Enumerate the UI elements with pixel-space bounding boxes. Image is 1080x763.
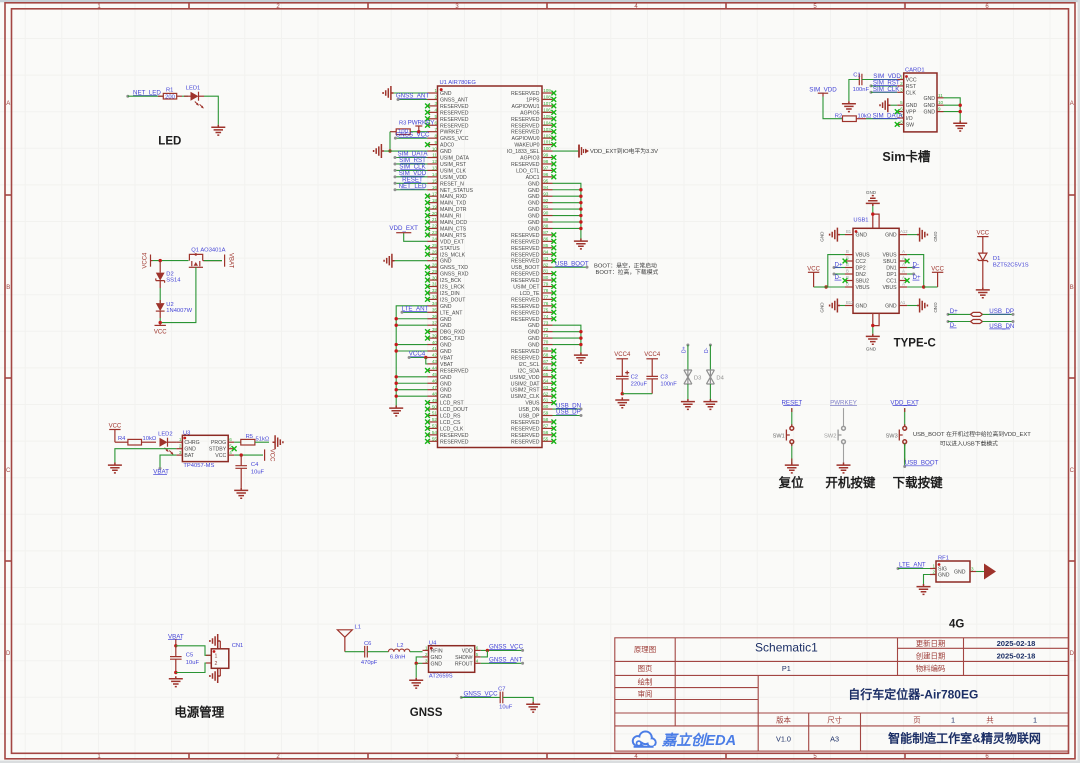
svg-text:30: 30	[432, 275, 438, 280]
ground at R5	[273, 435, 283, 449]
ground at USB1 bottom-right GND pin	[907, 299, 938, 314]
svg-text:3: 3	[425, 658, 428, 663]
net tie D+ to USB_DP	[947, 308, 1015, 316]
svg-text:GND: GND	[440, 304, 452, 310]
net label USB_DN at U1 pin60	[553, 402, 583, 410]
svg-text:GND: GND	[440, 349, 452, 355]
svg-text:RESERVED: RESERVED	[511, 239, 540, 245]
svg-text:20: 20	[432, 211, 438, 216]
svg-text:STDBY: STDBY	[209, 447, 227, 453]
svg-text:NET_STATUS: NET_STATUS	[440, 188, 473, 194]
svg-text:6: 6	[229, 437, 232, 442]
svg-text:48: 48	[432, 391, 438, 396]
svg-text:RESERVED: RESERVED	[511, 317, 540, 323]
svg-text:下载按键: 下载按键	[893, 475, 944, 490]
svg-text:71: 71	[543, 333, 549, 338]
svg-text:104: 104	[543, 120, 551, 125]
svg-text:ADC1: ADC1	[526, 175, 540, 181]
svg-text:2: 2	[215, 661, 218, 667]
svg-text:页: 页	[913, 715, 920, 724]
net label VBAT at CN1	[168, 633, 184, 646]
svg-text:B1: B1	[846, 229, 852, 234]
svg-text:GND: GND	[440, 149, 452, 155]
svg-text:ADC0: ADC0	[440, 143, 454, 149]
svg-text:85: 85	[543, 243, 549, 248]
svg-text:B12: B12	[846, 300, 854, 305]
svg-text:WAKEUP0: WAKEUP0	[514, 143, 539, 149]
svg-text:GND: GND	[528, 201, 540, 207]
svg-text:MAIN_CTS: MAIN_CTS	[440, 226, 467, 232]
svg-text:3: 3	[179, 450, 182, 455]
svg-text:2: 2	[425, 652, 428, 657]
wire C3 to C2 ground	[622, 393, 652, 395]
svg-text:LCD_CS: LCD_CS	[440, 420, 461, 426]
svg-text:VCC: VCC	[906, 78, 917, 84]
svg-text:I2S_LRCK: I2S_LRCK	[440, 285, 465, 291]
svg-text:6: 6	[434, 120, 437, 125]
svg-text:C2: C2	[631, 374, 638, 380]
svg-text:49: 49	[432, 398, 438, 403]
svg-text:55: 55	[543, 436, 549, 441]
svg-text:2025-02-18: 2025-02-18	[997, 652, 1036, 661]
svg-text:RESERVED: RESERVED	[511, 304, 540, 310]
net label NET_LED at U1 pin16	[394, 183, 428, 191]
svg-text:R1: R1	[166, 88, 173, 94]
wire RF1 GND to ground	[924, 575, 931, 585]
svg-text:63: 63	[543, 385, 549, 390]
svg-text:96: 96	[543, 172, 549, 177]
svg-text:PWRKEY: PWRKEY	[440, 130, 463, 136]
svg-text:22: 22	[432, 224, 438, 229]
wire C5 to CN1 pin1	[176, 646, 212, 656]
svg-text:68: 68	[543, 353, 549, 358]
svg-text:GND: GND	[528, 226, 540, 232]
junction at VCC node	[159, 321, 162, 324]
right GND manifold A wires of U1	[553, 183, 583, 238]
svg-text:1: 1	[951, 715, 955, 724]
svg-text:VDD_EXT: VDD_EXT	[440, 239, 465, 245]
svg-text:8: 8	[900, 119, 903, 124]
svg-text:B: B	[846, 269, 849, 274]
diode D2 SS14	[156, 261, 181, 288]
svg-text:VDD_EXT: VDD_EXT	[389, 225, 418, 232]
U1 right pins with names and numbers	[507, 88, 556, 445]
wire VCC4 to Q1	[153, 260, 189, 262]
wire R1 to LED1	[182, 95, 188, 97]
svg-text:54: 54	[432, 430, 438, 435]
svg-text:3: 3	[900, 87, 903, 92]
inductor L2 6.8nH	[389, 643, 410, 661]
svg-text:I2S_DOUT: I2S_DOUT	[440, 297, 466, 303]
svg-text:CN1: CN1	[232, 643, 244, 649]
svg-text:GND: GND	[440, 323, 452, 329]
net label GNSS_VCC at U1 pin8	[394, 131, 430, 139]
wire C7 to ground	[503, 697, 533, 701]
capacitor C3 100nF	[646, 374, 677, 393]
ground at RF1	[917, 584, 931, 594]
diode D3 TVS on D+	[686, 344, 689, 347]
svg-text:USIM2_DAT: USIM2_DAT	[511, 381, 541, 387]
svg-text:99: 99	[543, 153, 549, 158]
svg-text:1: 1	[434, 88, 437, 93]
svg-text:VCC: VCC	[154, 330, 167, 336]
svg-text:66: 66	[543, 365, 549, 370]
wire NET_LED to R1	[128, 95, 163, 97]
power flag VCC at R4	[109, 424, 122, 443]
power flag SIM_VDD left	[809, 86, 837, 96]
svg-text:CHRG: CHRG	[184, 440, 199, 446]
svg-text:C4: C4	[251, 462, 259, 468]
svg-text:LCD_DOUT: LCD_DOUT	[440, 407, 469, 413]
svg-text:RESERVED: RESERVED	[511, 162, 540, 168]
svg-text:61: 61	[543, 398, 549, 403]
svg-text:D: D	[1070, 651, 1075, 657]
svg-text:GND: GND	[528, 323, 540, 329]
svg-text:GND: GND	[856, 233, 868, 239]
svg-text:6.8nH: 6.8nH	[390, 655, 405, 661]
svg-text:101: 101	[543, 140, 551, 145]
svg-text:A1: A1	[900, 300, 906, 305]
svg-text:RESERVED: RESERVED	[511, 272, 540, 278]
svg-text:RESERVED: RESERVED	[511, 130, 540, 136]
svg-text:GND: GND	[528, 343, 540, 349]
svg-text:95: 95	[543, 178, 549, 183]
svg-text:D2: D2	[166, 271, 173, 277]
left GND manifold wires of U1	[395, 306, 428, 406]
svg-text:U3: U3	[183, 430, 190, 436]
svg-text:GND: GND	[431, 661, 443, 667]
svg-text:GND: GND	[440, 381, 452, 387]
svg-text:RESERVED: RESERVED	[511, 117, 540, 123]
no-connect X at USB1 CC2	[843, 259, 848, 264]
svg-text:106: 106	[543, 107, 551, 112]
net tie D- to USB_DN	[947, 320, 1015, 330]
svg-text:4: 4	[434, 108, 437, 113]
svg-text:LED1: LED1	[186, 86, 201, 92]
svg-text:87: 87	[543, 230, 549, 235]
svg-text:2025-02-18: 2025-02-18	[997, 639, 1036, 648]
svg-text:1: 1	[215, 653, 218, 659]
svg-text:18: 18	[432, 198, 438, 203]
svg-text:MAIN_RXD: MAIN_RXD	[440, 194, 467, 200]
wire U4 SHDN# to VDD	[481, 650, 488, 657]
svg-text:72: 72	[543, 327, 549, 332]
svg-text:GND: GND	[938, 573, 950, 579]
svg-text:103: 103	[543, 127, 551, 132]
svg-text:MAIN_RI: MAIN_RI	[440, 214, 461, 220]
svg-text:SW2: SW2	[824, 433, 837, 439]
net label NET_LED at R1	[126, 89, 161, 97]
svg-text:36: 36	[432, 314, 438, 319]
svg-text:25: 25	[432, 243, 438, 248]
svg-text:83: 83	[543, 256, 549, 261]
svg-text:109: 109	[543, 88, 551, 93]
junction at C5 top	[174, 644, 177, 647]
svg-text:RESERVED: RESERVED	[440, 110, 469, 116]
svg-text:D-: D-	[704, 347, 710, 353]
wire RF1 to antenna stub	[976, 571, 984, 573]
svg-text:105: 105	[543, 114, 551, 119]
svg-text:RESERVED: RESERVED	[440, 439, 469, 445]
svg-text:GND: GND	[923, 110, 935, 116]
svg-text:SBU1: SBU1	[883, 259, 897, 265]
svg-text:RESERVED: RESERVED	[511, 123, 540, 129]
svg-text:共: 共	[986, 715, 994, 724]
svg-text:C6: C6	[364, 641, 371, 647]
svg-text:RESERVED: RESERVED	[511, 426, 540, 432]
svg-text:42: 42	[432, 353, 438, 358]
net label RESET at U1 pin15	[394, 177, 428, 185]
ground at CN1 top	[210, 634, 220, 648]
svg-text:A: A	[902, 256, 905, 261]
svg-text:GND: GND	[528, 336, 540, 342]
svg-text:47: 47	[432, 385, 438, 390]
svg-text:电源管理: 电源管理	[174, 705, 225, 720]
svg-text:AGPIOWU1: AGPIOWU1	[512, 104, 540, 110]
svg-text:DBG_TXD: DBG_TXD	[440, 336, 465, 342]
capacitor C7 10uF	[498, 686, 513, 710]
svg-text:16: 16	[432, 185, 438, 190]
svg-text:60: 60	[543, 404, 549, 409]
svg-text:RESERVED: RESERVED	[511, 349, 540, 355]
net label GNSS_VCC at C7	[460, 691, 500, 699]
svg-text:D4: D4	[716, 376, 724, 382]
svg-text:74: 74	[543, 314, 549, 319]
svg-text:94: 94	[543, 185, 549, 190]
svg-text:RESERVED: RESERVED	[511, 246, 540, 252]
svg-text:70: 70	[543, 340, 549, 345]
power flag VCC4 at C2	[614, 352, 631, 376]
svg-text:9: 9	[434, 140, 437, 145]
wire U1 pin27 GND to ground	[395, 260, 428, 262]
svg-text:2: 2	[434, 95, 437, 100]
net label SIM_RST at U1 pin12	[394, 157, 428, 165]
svg-text:DBG_RXD: DBG_RXD	[440, 330, 465, 336]
svg-text:AGPIOWU0: AGPIOWU0	[512, 136, 540, 142]
diode LED2	[158, 431, 176, 455]
svg-text:4G: 4G	[949, 618, 964, 630]
net label USB_BOOT at U1 pin82 with note	[553, 260, 659, 276]
svg-text:A: A	[902, 269, 905, 274]
svg-text:LDO_CTL: LDO_CTL	[516, 168, 539, 174]
antenna arrow 4G	[984, 564, 996, 580]
svg-text:GND: GND	[440, 259, 452, 265]
svg-text:55: 55	[432, 437, 438, 442]
svg-text:GND: GND	[440, 375, 452, 381]
svg-text:USB_DP: USB_DP	[519, 414, 540, 420]
svg-text:GND: GND	[440, 91, 452, 97]
svg-text:GND: GND	[856, 304, 868, 310]
svg-text:VBUS: VBUS	[882, 253, 897, 259]
svg-text:RESERVED: RESERVED	[511, 278, 540, 284]
svg-text:I2S_DIN: I2S_DIN	[440, 291, 460, 297]
svg-text:GND: GND	[440, 317, 452, 323]
title block table	[615, 638, 1069, 751]
no-connect X at CARD1 SW	[895, 122, 900, 127]
svg-text:RESERVED: RESERVED	[511, 91, 540, 97]
svg-text:B: B	[1070, 285, 1074, 291]
transistor Q1 AO3401A PMOS	[189, 248, 226, 268]
capacitor C1 100nF	[853, 72, 870, 93]
svg-text:STATUS: STATUS	[440, 246, 460, 252]
U1 left pins with names and numbers	[425, 88, 473, 445]
ground at U3 GND	[108, 463, 122, 473]
svg-text:RESERVED: RESERVED	[440, 433, 469, 439]
wires CARD1 right GND pins to ground	[944, 98, 962, 121]
switch SW2 power button greyed	[824, 399, 857, 462]
net label SIM_CLK at U1 pin13	[394, 164, 428, 172]
svg-text:93: 93	[543, 191, 549, 196]
svg-text:GND: GND	[923, 96, 935, 102]
svg-text:DN2: DN2	[856, 272, 866, 278]
svg-text:V1.0: V1.0	[776, 735, 791, 744]
svg-text:1PPS: 1PPS	[526, 97, 540, 103]
svg-text:CARD1: CARD1	[905, 68, 925, 74]
svg-text:RESERVED: RESERVED	[440, 104, 469, 110]
svg-text:98: 98	[543, 159, 549, 164]
svg-text:USB1: USB1	[853, 218, 868, 224]
svg-text:L2: L2	[397, 643, 403, 649]
net label GNSS_ANT at U1 pin2	[396, 93, 430, 101]
net label SIM_DATA at U1 pin11	[394, 151, 429, 159]
svg-text:15: 15	[432, 179, 438, 184]
svg-text:59: 59	[543, 411, 549, 416]
svg-text:USIM_DET: USIM_DET	[513, 285, 540, 291]
svg-text:RESERVED: RESERVED	[511, 420, 540, 426]
svg-text:52: 52	[432, 417, 438, 422]
wire U4 GND pins to ground	[415, 657, 423, 678]
svg-text:GND: GND	[528, 330, 540, 336]
svg-text:C5: C5	[186, 652, 193, 658]
svg-text:8: 8	[434, 133, 437, 138]
svg-text:A: A	[6, 101, 10, 107]
junction at C5 bottom	[174, 671, 177, 674]
svg-text:69: 69	[543, 346, 549, 351]
svg-text:R2: R2	[835, 114, 842, 120]
capacitor C2 220uF polarized	[616, 371, 647, 394]
svg-text:TYPE-C: TYPE-C	[894, 338, 936, 350]
svg-text:BOOT：拉高，下载模式: BOOT：拉高，下载模式	[596, 268, 659, 276]
svg-text:1: 1	[932, 564, 935, 569]
svg-text:GND: GND	[820, 231, 825, 242]
svg-text:Sim卡槽: Sim卡槽	[882, 149, 930, 164]
chip U1 AIR780EG body	[438, 80, 543, 448]
svg-text:USIM_VDD: USIM_VDD	[440, 175, 467, 181]
svg-text:R4: R4	[118, 436, 126, 442]
svg-text:PROG: PROG	[211, 440, 226, 446]
svg-text:VCC4: VCC4	[143, 252, 149, 269]
svg-text:USB_DN: USB_DN	[518, 407, 539, 413]
svg-text:GND: GND	[528, 188, 540, 194]
power flag VCC right of U3	[265, 449, 275, 462]
diode D1 BZT52C5V1S zener	[978, 253, 1029, 287]
svg-text:10uF: 10uF	[499, 705, 513, 711]
svg-text:GND: GND	[528, 214, 540, 220]
ground at CN1 bottom	[210, 669, 220, 683]
svg-text:I2S_MCLK: I2S_MCLK	[440, 252, 466, 258]
svg-text:11: 11	[432, 153, 437, 158]
svg-text:43: 43	[432, 359, 438, 364]
svg-text:RESERVED: RESERVED	[511, 310, 540, 316]
svg-text:A3: A3	[830, 735, 839, 744]
resistor R3 and PWRKEY flag at U1 pin7	[388, 120, 434, 153]
net label SIM_CLK at CARD1 CLK	[870, 86, 901, 94]
svg-text:7: 7	[434, 127, 437, 132]
svg-text:GNSS: GNSS	[410, 707, 443, 719]
svg-text:14: 14	[432, 172, 438, 177]
resistor R4 10k	[115, 436, 157, 445]
power flag VCC left of USB1	[807, 266, 820, 287]
svg-text:102: 102	[543, 133, 551, 138]
svg-text:USIM_RST: USIM_RST	[440, 162, 467, 168]
svg-text:GND: GND	[954, 570, 966, 576]
VDD_EXT power flag at U1 pin100 with note	[553, 145, 659, 158]
svg-text:GNSS_RXD: GNSS_RXD	[440, 272, 469, 278]
svg-text:USIM2_RST: USIM2_RST	[510, 388, 540, 394]
svg-text:L1: L1	[355, 625, 361, 631]
svg-text:50: 50	[432, 404, 438, 409]
ground at USB1 top-right GND pin	[907, 228, 938, 243]
capacitor C4 10uF	[235, 455, 264, 488]
wire U1 pin1 GND to ground	[394, 92, 428, 94]
ground at U1 pin1	[383, 86, 393, 100]
svg-text:A: A	[902, 275, 905, 280]
svg-text:5: 5	[900, 100, 903, 105]
svg-text:B: B	[6, 285, 10, 291]
net label SIM_VDD at U1 pin14	[394, 170, 428, 178]
ground at C4	[234, 488, 248, 498]
net label USB_DP at U1 pin59	[553, 409, 583, 417]
svg-text:84: 84	[543, 249, 549, 254]
svg-text:MAIN_DTR: MAIN_DTR	[440, 207, 467, 213]
svg-text:GNSS_TXD: GNSS_TXD	[440, 265, 468, 271]
svg-text:Q1 AO3401A: Q1 AO3401A	[191, 248, 225, 254]
svg-text:原理图: 原理图	[634, 645, 656, 654]
svg-text:220uF: 220uF	[631, 381, 648, 387]
svg-text:LED2: LED2	[158, 431, 173, 437]
ground at U4	[409, 678, 423, 688]
svg-text:RESERVED: RESERVED	[511, 252, 540, 258]
svg-text:C: C	[6, 468, 11, 474]
svg-text:44: 44	[432, 366, 438, 371]
svg-text:自行车定位器-Air780EG: 自行车定位器-Air780EG	[848, 687, 978, 702]
svg-text:88: 88	[543, 224, 549, 229]
svg-text:USB_BOOT 在开机过程中给拉高到VDD_EXT: USB_BOOT 在开机过程中给拉高到VDD_EXT	[913, 430, 1031, 438]
svg-text:AGPIO5: AGPIO5	[520, 110, 539, 116]
svg-text:5: 5	[434, 114, 437, 119]
power flag VCC4 at C3	[644, 352, 661, 376]
svg-text:DP2: DP2	[856, 266, 866, 272]
svg-text:GND: GND	[440, 388, 452, 394]
svg-text:GND: GND	[885, 304, 897, 310]
svg-text:40: 40	[432, 340, 438, 345]
no-connect X at USB1 SBU1	[905, 259, 910, 264]
svg-text:2: 2	[932, 570, 935, 575]
svg-text:LTE_ANT: LTE_ANT	[440, 310, 463, 316]
svg-text:GND: GND	[906, 103, 918, 109]
svg-text:D3: D3	[694, 376, 701, 382]
svg-text:SIM_VDD: SIM_VDD	[809, 86, 837, 93]
svg-text:76: 76	[543, 301, 549, 306]
svg-text:可以进入USB下载模式: 可以进入USB下载模式	[940, 439, 998, 447]
net label SIM_VDD at CARD1 VCC	[862, 73, 901, 80]
svg-text:3: 3	[434, 101, 437, 106]
ground at U1 pin10	[374, 144, 384, 158]
svg-text:USIM2_CLK: USIM2_CLK	[511, 394, 540, 400]
svg-text:I2C_SDA: I2C_SDA	[518, 368, 540, 374]
power flag VBAT at Q1 drain	[225, 253, 234, 269]
svg-text:GND: GND	[933, 302, 938, 313]
